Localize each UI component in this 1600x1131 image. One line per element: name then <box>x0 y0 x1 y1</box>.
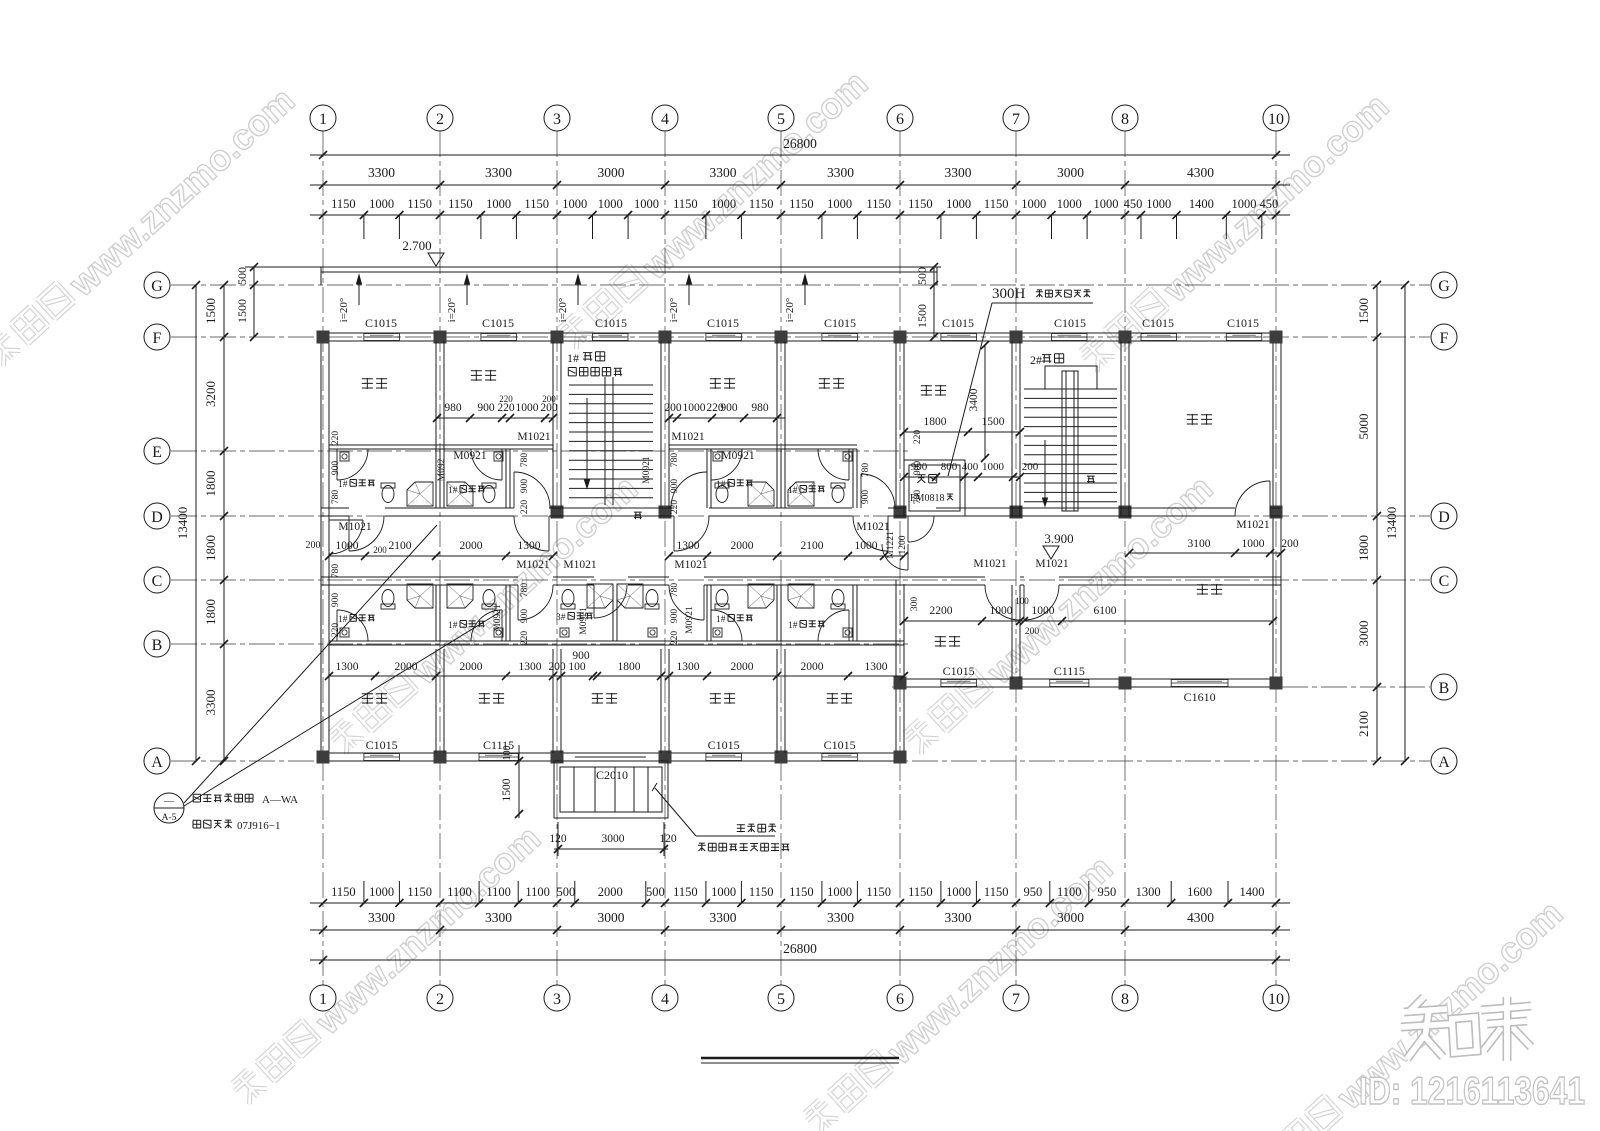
svg-text:1#: 1# <box>338 480 348 490</box>
svg-text:07J916−1: 07J916−1 <box>237 820 280 832</box>
svg-text:3300: 3300 <box>203 690 218 716</box>
svg-text:3300: 3300 <box>710 910 737 925</box>
svg-text:3300: 3300 <box>368 910 395 925</box>
svg-text:1: 1 <box>319 111 327 128</box>
svg-text:1#: 1# <box>448 486 458 496</box>
svg-text:200: 200 <box>664 402 682 414</box>
svg-text:780: 780 <box>331 564 341 579</box>
svg-text:500: 500 <box>915 267 929 285</box>
svg-text:1150: 1150 <box>789 885 814 899</box>
svg-text:3000: 3000 <box>1057 165 1084 180</box>
toilet band top wall (upper) <box>329 444 553 446</box>
svg-text:1: 1 <box>319 991 327 1008</box>
svg-text:M092: M092 <box>437 458 447 481</box>
svg-text:500: 500 <box>557 885 576 899</box>
svg-text:1500: 1500 <box>235 299 249 323</box>
svg-text:6100: 6100 <box>1094 605 1117 617</box>
svg-text:980: 980 <box>444 402 462 414</box>
glass canopy C2010 <box>554 761 668 818</box>
svg-text:M1021: M1021 <box>856 521 889 533</box>
svg-text:A: A <box>151 754 163 771</box>
svg-text:C1015: C1015 <box>707 316 739 330</box>
svg-text:C1015: C1015 <box>824 316 856 330</box>
svg-text:M0921: M0921 <box>642 456 652 484</box>
svg-text:C: C <box>152 573 163 590</box>
svg-text:100: 100 <box>502 746 513 761</box>
svg-text:220: 220 <box>520 631 530 646</box>
wall col6 step <box>895 679 897 761</box>
svg-text:2: 2 <box>436 111 444 128</box>
svg-text:1800: 1800 <box>203 535 218 561</box>
exterior wall F (top) <box>321 332 1281 334</box>
svg-text:3300: 3300 <box>368 165 395 180</box>
upper toilet passage doors <box>513 472 515 508</box>
svg-text:1000: 1000 <box>516 402 539 414</box>
svg-text:3200: 3200 <box>203 381 218 407</box>
right section dim row <box>904 620 1273 622</box>
svg-text:D: D <box>1438 509 1450 526</box>
svg-text:1400: 1400 <box>1240 885 1265 899</box>
svg-text:1150: 1150 <box>331 885 356 899</box>
svg-text:5000: 5000 <box>1356 414 1371 440</box>
svg-text:A: A <box>1438 754 1450 771</box>
svg-text:3: 3 <box>553 111 561 128</box>
svg-text:950: 950 <box>1098 885 1117 899</box>
svg-text:1150: 1150 <box>984 885 1009 899</box>
svg-text:900: 900 <box>670 609 680 624</box>
svg-text:1400: 1400 <box>1189 197 1214 211</box>
svg-text:200: 200 <box>1025 627 1040 637</box>
svg-text:C1015: C1015 <box>1054 316 1086 330</box>
svg-text:1150: 1150 <box>448 197 473 211</box>
svg-text:C1115: C1115 <box>1054 664 1085 678</box>
svg-text:4300: 4300 <box>1187 165 1214 180</box>
svg-text:1800: 1800 <box>618 661 641 673</box>
svg-text:1000: 1000 <box>1057 197 1082 211</box>
canopy dims <box>518 745 520 818</box>
svg-text:200: 200 <box>306 540 321 551</box>
svg-text:220: 220 <box>913 430 923 445</box>
stair1 bay walls already col3/col4; stair2 bay col7/col8 <box>1011 341 1013 516</box>
svg-text:1500: 1500 <box>1356 298 1371 324</box>
svg-text:1000: 1000 <box>827 197 852 211</box>
svg-text:3300: 3300 <box>485 165 512 180</box>
electric shaft dian jing <box>904 460 965 516</box>
svg-text:100: 100 <box>1015 596 1029 606</box>
svg-text:780: 780 <box>861 463 871 478</box>
svg-text:500: 500 <box>235 267 249 285</box>
svg-text:220: 220 <box>670 500 680 515</box>
svg-text:1000: 1000 <box>946 885 971 899</box>
svg-text:1200: 1200 <box>898 535 908 554</box>
svg-text:1150: 1150 <box>407 885 432 899</box>
svg-text:450: 450 <box>1124 197 1143 211</box>
svg-text:220: 220 <box>670 631 680 646</box>
svg-text:B: B <box>152 637 163 654</box>
electric shaft door FM0818 <box>907 516 909 542</box>
svg-text:220: 220 <box>520 500 530 515</box>
svg-text:3300: 3300 <box>945 165 972 180</box>
svg-text:1500: 1500 <box>203 298 218 324</box>
svg-text:900: 900 <box>670 479 680 494</box>
svg-text:900: 900 <box>572 650 590 662</box>
svg-text:3000: 3000 <box>602 833 625 845</box>
svg-text:1300: 1300 <box>865 661 888 673</box>
svg-text:4: 4 <box>661 111 669 128</box>
svg-text:2000: 2000 <box>460 540 483 552</box>
svg-text:B: B <box>1439 680 1450 697</box>
svg-text:M0921: M0921 <box>453 450 486 462</box>
entrance opening at bay3-4 <box>575 756 646 758</box>
svg-text:C: C <box>1439 573 1450 590</box>
svg-text:F: F <box>1440 330 1449 347</box>
svg-text:1500: 1500 <box>501 778 513 801</box>
toilet room doors upper <box>336 449 338 480</box>
svg-text:13400: 13400 <box>1384 507 1399 540</box>
windows on B-right wall + labels <box>941 680 977 687</box>
svg-text:ID: 1216113641: ID: 1216113641 <box>1359 1070 1585 1113</box>
svg-text:E: E <box>152 444 162 461</box>
watermark tiles <box>0 79 302 375</box>
svg-text:3300: 3300 <box>485 910 512 925</box>
svg-text:1000: 1000 <box>1032 605 1055 617</box>
svg-text:M1021: M1021 <box>517 431 550 443</box>
svg-text:1150: 1150 <box>908 197 933 211</box>
svg-text:2.700: 2.700 <box>402 238 431 253</box>
svg-text:1000: 1000 <box>711 197 736 211</box>
svg-text:1000: 1000 <box>336 540 359 552</box>
svg-text:1800: 1800 <box>203 471 218 497</box>
office partitions upper <box>435 341 437 508</box>
svg-text:1000: 1000 <box>1094 197 1119 211</box>
svg-text:1500: 1500 <box>915 304 929 328</box>
svg-text:2#: 2# <box>1030 353 1042 367</box>
svg-text:1300: 1300 <box>336 661 359 673</box>
svg-text:1100: 1100 <box>486 885 511 899</box>
svg-text:1100: 1100 <box>447 885 472 899</box>
svg-text:2100: 2100 <box>801 540 824 552</box>
svg-text:3#: 3# <box>556 613 566 623</box>
svg-text:900: 900 <box>720 402 738 414</box>
windows on A wall + labels <box>364 754 400 761</box>
svg-text:5: 5 <box>777 111 785 128</box>
svg-text:1150: 1150 <box>407 197 432 211</box>
svg-text:1#: 1# <box>716 615 726 625</box>
svg-text:450: 450 <box>1260 197 1279 211</box>
svg-text:3.900: 3.900 <box>1044 531 1073 546</box>
A-5 detail bubble + note <box>154 793 184 823</box>
svg-text:1150: 1150 <box>331 197 356 211</box>
svg-text:1150: 1150 <box>866 885 891 899</box>
svg-text:M0921: M0921 <box>579 607 589 635</box>
svg-text:4: 4 <box>661 991 669 1008</box>
svg-text:200: 200 <box>373 545 387 555</box>
svg-text:C1015: C1015 <box>482 316 514 330</box>
exterior wall left <box>320 333 322 761</box>
toilet room doors lower <box>336 610 338 641</box>
svg-text:780: 780 <box>520 453 530 468</box>
svg-text:3100: 3100 <box>1188 538 1211 550</box>
svg-text:M1021: M1021 <box>671 431 704 443</box>
svg-text:1150: 1150 <box>789 197 814 211</box>
upper office dim row <box>437 417 553 419</box>
svg-text:1000: 1000 <box>486 197 511 211</box>
svg-text:1300: 1300 <box>518 540 541 552</box>
svg-text:C1015: C1015 <box>1227 316 1259 330</box>
svg-text:120: 120 <box>659 833 677 845</box>
svg-text:950: 950 <box>1024 885 1043 899</box>
title underline <box>701 1057 899 1059</box>
svg-text:200: 200 <box>548 661 566 673</box>
exterior wall right <box>1272 333 1274 687</box>
svg-text:3: 3 <box>553 991 561 1008</box>
office partitions lower <box>435 649 437 753</box>
svg-text:1300: 1300 <box>677 540 700 552</box>
grid axes <box>322 131 324 985</box>
svg-text:C1610: C1610 <box>1184 690 1216 704</box>
svg-text:i=20°: i=20° <box>338 298 350 323</box>
svg-text:6: 6 <box>896 991 904 1008</box>
svg-text:C1015: C1015 <box>943 664 975 678</box>
svg-text:2200: 2200 <box>930 605 953 617</box>
svg-text:1600: 1600 <box>1187 885 1212 899</box>
svg-text:400: 400 <box>962 461 979 473</box>
svg-text:220: 220 <box>331 623 341 638</box>
toilet dividers lower <box>435 585 437 641</box>
svg-text:1#: 1# <box>716 480 726 490</box>
right dimension chains <box>1376 285 1378 761</box>
svg-text:1000: 1000 <box>562 197 587 211</box>
svg-text:i=20°: i=20° <box>557 298 569 323</box>
svg-text:1300: 1300 <box>677 661 700 673</box>
svg-text:C1015: C1015 <box>708 738 740 752</box>
svg-text:1150: 1150 <box>524 197 549 211</box>
corridor doors on C wall <box>517 585 519 620</box>
svg-text:1000: 1000 <box>990 605 1013 617</box>
upper toilet fixtures <box>407 482 433 506</box>
svg-text:500: 500 <box>646 885 665 899</box>
lower toilet fixtures <box>407 584 433 608</box>
svg-text:8: 8 <box>1121 111 1129 128</box>
facade strip / canopy edge 2.700 <box>321 266 937 268</box>
top dimension chains <box>310 154 1290 156</box>
svg-text:1000: 1000 <box>369 197 394 211</box>
svg-text:C1015: C1015 <box>366 738 398 752</box>
svg-text:C1015: C1015 <box>824 738 856 752</box>
columns (filled) <box>317 331 330 344</box>
svg-text:1000: 1000 <box>827 885 852 899</box>
lower-right office divider col7 <box>1011 585 1013 679</box>
svg-text:780: 780 <box>331 490 341 505</box>
svg-text:980: 980 <box>751 402 769 414</box>
svg-text:1000: 1000 <box>711 885 736 899</box>
svg-text:1800: 1800 <box>1356 535 1371 561</box>
left exterior door <box>329 519 363 521</box>
svg-text:A-5: A-5 <box>162 813 177 823</box>
svg-text:2000: 2000 <box>460 661 483 673</box>
svg-text:1000: 1000 <box>683 402 706 414</box>
svg-text:780: 780 <box>670 453 680 468</box>
svg-text:C2010: C2010 <box>596 768 628 782</box>
svg-text:3300: 3300 <box>710 165 737 180</box>
svg-text:1000: 1000 <box>369 885 394 899</box>
stair2 room dims <box>904 431 1020 433</box>
svg-text:C1015: C1015 <box>942 316 974 330</box>
svg-text:G: G <box>1438 278 1450 295</box>
svg-text:2000: 2000 <box>801 661 824 673</box>
svg-text:1150: 1150 <box>673 197 698 211</box>
svg-text:900: 900 <box>331 593 341 608</box>
svg-text:1#: 1# <box>567 351 579 365</box>
svg-text:3000: 3000 <box>1057 910 1084 925</box>
svg-text:1000: 1000 <box>946 197 971 211</box>
svg-text:M1021: M1021 <box>563 559 596 571</box>
svg-text:3300: 3300 <box>945 910 972 925</box>
svg-text:G: G <box>151 278 163 295</box>
svg-text:M0921: M0921 <box>493 604 503 632</box>
svg-text:900: 900 <box>477 402 495 414</box>
svg-text:2100: 2100 <box>1356 711 1371 737</box>
svg-text:1000: 1000 <box>982 461 1005 473</box>
stair 1 with treads <box>569 384 653 386</box>
toilet dividers upper <box>435 449 437 508</box>
svg-text:1150: 1150 <box>866 197 891 211</box>
svg-text:1000: 1000 <box>598 197 623 211</box>
svg-text:3000: 3000 <box>598 910 625 925</box>
exterior wall A (bottom, cols1-6) <box>321 752 904 754</box>
svg-text:200: 200 <box>1281 538 1299 550</box>
svg-text:3000: 3000 <box>1356 621 1371 647</box>
svg-text:200: 200 <box>1022 461 1039 473</box>
svg-text:10: 10 <box>1268 111 1284 128</box>
svg-text:1300: 1300 <box>1136 885 1161 899</box>
canopy note leader <box>655 788 696 836</box>
svg-text:1300: 1300 <box>519 661 542 673</box>
lower toilet dim row <box>329 675 904 677</box>
svg-text:M1021: M1021 <box>674 559 707 571</box>
svg-text:M1221: M1221 <box>886 531 896 559</box>
svg-text:M1021: M1021 <box>973 558 1006 570</box>
svg-text:—: — <box>163 796 175 807</box>
svg-text:C1015: C1015 <box>595 316 627 330</box>
corridor wall D <box>321 507 349 509</box>
svg-text:1#: 1# <box>788 486 798 496</box>
svg-text:M0921: M0921 <box>721 450 754 462</box>
stair 2 with treads <box>1024 388 1117 390</box>
M1221 lobby door near shaft <box>907 544 909 570</box>
svg-text:M0921: M0921 <box>685 606 695 634</box>
office labels (ban gong) <box>362 378 387 389</box>
svg-text:8: 8 <box>1121 991 1129 1008</box>
corridor wall C <box>321 576 518 578</box>
znzmo logo <box>1410 997 1424 1011</box>
svg-text:10: 10 <box>1268 991 1284 1008</box>
svg-text:220: 220 <box>331 431 341 446</box>
svg-text:780: 780 <box>670 583 680 598</box>
grid bubbles <box>310 105 336 131</box>
svg-text:1150: 1150 <box>749 885 774 899</box>
svg-text:1000: 1000 <box>634 197 659 211</box>
svg-text:1000: 1000 <box>1146 197 1171 211</box>
svg-text:900: 900 <box>520 479 530 494</box>
left dimension chains <box>223 285 225 761</box>
svg-text:A—WA: A—WA <box>262 794 298 806</box>
svg-text:C1015: C1015 <box>365 316 397 330</box>
exterior wall B-right (bottom, cols6-10) <box>896 678 1281 680</box>
svg-text:2000: 2000 <box>731 540 754 552</box>
svg-text:900: 900 <box>520 609 530 624</box>
svg-text:780: 780 <box>520 583 530 598</box>
svg-text:M1021: M1021 <box>1035 558 1068 570</box>
svg-text:4300: 4300 <box>1187 910 1214 925</box>
svg-text:1#: 1# <box>788 621 798 631</box>
svg-text:900: 900 <box>861 490 871 505</box>
svg-text:3300: 3300 <box>827 165 854 180</box>
bottom dimension chains <box>310 902 1290 904</box>
svg-text:26800: 26800 <box>783 136 817 151</box>
windows on F wall + labels C1015 <box>364 334 400 341</box>
svg-text:26800: 26800 <box>783 941 817 956</box>
svg-text:1150: 1150 <box>749 197 774 211</box>
svg-text:780: 780 <box>913 490 923 505</box>
svg-text:i=20°: i=20° <box>784 298 796 323</box>
svg-text:3300: 3300 <box>827 910 854 925</box>
svg-text:220: 220 <box>499 394 513 404</box>
svg-text:1100: 1100 <box>525 885 550 899</box>
svg-text:1150: 1150 <box>908 885 933 899</box>
svg-text:6: 6 <box>896 111 904 128</box>
svg-text:1000: 1000 <box>1232 197 1257 211</box>
svg-text:i=20°: i=20° <box>446 298 458 323</box>
svg-text:M1021: M1021 <box>338 521 371 533</box>
svg-text:1100: 1100 <box>1057 885 1082 899</box>
svg-text:2000: 2000 <box>731 661 754 673</box>
svg-text:2100: 2100 <box>389 540 412 552</box>
svg-text:3000: 3000 <box>598 165 625 180</box>
svg-text:1#: 1# <box>448 621 458 631</box>
svg-text:2000: 2000 <box>598 885 623 899</box>
svg-text:200: 200 <box>542 394 556 404</box>
corridor dim row <box>329 555 553 557</box>
svg-text:M1021: M1021 <box>516 559 549 571</box>
svg-text:1150: 1150 <box>984 197 1009 211</box>
svg-text:1000: 1000 <box>855 540 878 552</box>
svg-text:1000: 1000 <box>1242 538 1265 550</box>
svg-text:2000: 2000 <box>395 661 418 673</box>
svg-text:7: 7 <box>1012 111 1020 128</box>
svg-text:900: 900 <box>331 461 341 476</box>
svg-text:13400: 13400 <box>175 507 190 540</box>
svg-text:M1021: M1021 <box>1236 519 1269 531</box>
toilet band bottom wall (lower) <box>329 640 904 642</box>
svg-text:2: 2 <box>436 991 444 1008</box>
svg-text:300H: 300H <box>992 286 1026 302</box>
svg-text:1150: 1150 <box>673 885 698 899</box>
corridor doors on D wall <box>348 516 350 551</box>
svg-text:C1015: C1015 <box>1142 316 1174 330</box>
svg-text:1800: 1800 <box>203 599 218 625</box>
svg-text:100: 100 <box>568 661 586 673</box>
svg-text:900: 900 <box>913 461 923 476</box>
svg-text:300: 300 <box>910 597 920 612</box>
shaft top dim row <box>904 476 1020 478</box>
svg-text:D: D <box>151 509 163 526</box>
svg-text:F: F <box>153 330 162 347</box>
svg-text:1000: 1000 <box>1021 197 1046 211</box>
svg-text:1800: 1800 <box>924 416 947 428</box>
svg-text:i=20°: i=20° <box>668 298 680 323</box>
svg-text:5: 5 <box>777 991 785 1008</box>
